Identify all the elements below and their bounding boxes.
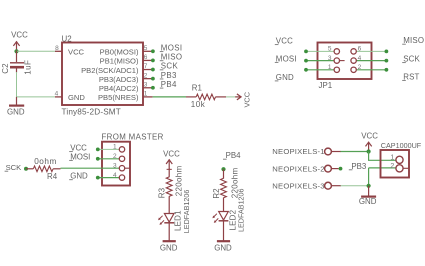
net label MOSI (JP1 left) (275, 54, 297, 63)
svg-text:R1: R1 (192, 83, 202, 92)
JP1 pad 6 (351, 49, 356, 54)
wire LED2 to GND (223, 221, 225, 241)
LED LED1 (158, 214, 174, 225)
power symbol VCC (LED1 branch) (163, 150, 180, 170)
svg-text:1: 1 (144, 91, 148, 98)
wire R1 to VCC arrow (226, 96, 237, 98)
wire C2 bottom to GND rail (16, 72, 18, 97)
svg-text:MOSI: MOSI (161, 43, 183, 52)
junction dot net PB3 (151, 77, 155, 81)
svg-text:SCK: SCK (6, 163, 22, 172)
net label SCK (JP1 right) (402, 55, 420, 64)
svg-text:R4: R4 (47, 172, 58, 181)
wire R3 to LED1 (168, 196, 170, 223)
junction dot GND/neopixels-3 (367, 184, 371, 188)
wire VCC to R3 (168, 169, 170, 178)
svg-text:FROM MASTER: FROM MASTER (102, 132, 164, 141)
FROM MASTER pad 3 (119, 166, 124, 171)
net label SCK (160, 62, 179, 71)
junction dot right row 2 (385, 59, 389, 63)
svg-text:GND: GND (7, 107, 25, 116)
ground symbol GND (LED2) (214, 241, 232, 252)
svg-text:6: 6 (358, 46, 362, 53)
JP1 pad 1 (334, 67, 339, 72)
svg-text:MISO: MISO (161, 53, 183, 62)
svg-text:NEOPIXELS-1: NEOPIXELS-1 (272, 147, 324, 156)
svg-text:VCC: VCC (70, 144, 87, 153)
U2 pin 4 stub (55, 96, 62, 98)
junction dot net PB4 (151, 86, 155, 90)
net label VCC (from master) (69, 144, 87, 153)
power symbol VCC (top-left) (11, 30, 28, 51)
svg-text:1uF: 1uF (24, 60, 33, 75)
svg-text:3: 3 (113, 162, 117, 169)
net label MISO (JP1 right) (402, 36, 424, 45)
svg-text:R2: R2 (212, 188, 221, 199)
junction dot left row 2 (304, 59, 308, 63)
svg-text:PB3: PB3 (161, 71, 177, 80)
ground symbol GND (top-left) (7, 97, 25, 116)
wire NEOPIXELS-3 to GND node (341, 185, 369, 187)
svg-text:NEOPIXELS-3: NEOPIXELS-3 (272, 181, 324, 190)
connector JP1 box (318, 43, 372, 80)
junction dot right row 1 (385, 50, 389, 54)
svg-text:5: 5 (328, 46, 332, 53)
net label MISO (160, 53, 183, 62)
JP1 pad 3 (334, 58, 339, 63)
JP1 pad 4 (351, 58, 356, 63)
resistor R3 (166, 177, 172, 197)
svg-text:8: 8 (55, 45, 59, 52)
cap pad 2 (396, 165, 403, 172)
junction dot net MISO (151, 59, 155, 63)
svg-text:Tiny85-2D-SMT: Tiny85-2D-SMT (62, 107, 121, 116)
wire into FROM MASTER pin 4 (98, 177, 120, 179)
svg-text:CAP1000UF: CAP1000UF (381, 141, 422, 150)
capacitor C2 (10, 51, 24, 73)
svg-text:PB5(NRES): PB5(NRES) (98, 93, 139, 102)
ground symbol GND (neopixels) (359, 186, 377, 206)
JP1 pad 5 (334, 49, 339, 54)
net label RST (JP1 right) (402, 72, 419, 81)
net label PB3 (160, 71, 177, 80)
svg-text:1: 1 (113, 144, 117, 151)
U2 right pin stub 2 (143, 78, 153, 80)
svg-text:4: 4 (358, 55, 362, 62)
svg-text:PB1(MISO): PB1(MISO) (100, 57, 139, 66)
svg-text:MISO: MISO (403, 36, 424, 45)
pad stub NEOPIXELS-1 (331, 151, 341, 153)
svg-text:PB4: PB4 (161, 80, 177, 89)
net label MOSI (160, 43, 183, 52)
wire GND rail to U2 pin 4 (17, 96, 56, 98)
net label PB3 (349, 162, 367, 171)
FROM MASTER pad 2 (119, 156, 124, 161)
svg-text:JP1: JP1 (319, 81, 333, 90)
svg-text:PB3(ADC3): PB3(ADC3) (99, 75, 139, 84)
svg-text:PB4(ADC2): PB4(ADC2) (99, 84, 139, 93)
junction dot SCK end (24, 167, 28, 171)
svg-text:1: 1 (390, 154, 394, 161)
junction dot node VCC/C2/U2-pin8 (14, 49, 18, 53)
wire into JP1 pin 1 (306, 69, 334, 71)
net label MOSI (from master) (69, 152, 90, 161)
wire R2 to LED2 (223, 198, 225, 221)
svg-text:3: 3 (328, 55, 332, 62)
svg-text:5: 5 (144, 45, 148, 52)
net label GND (JP1 left) (275, 73, 294, 82)
wire NEOPIXELS-2 stub (331, 168, 338, 170)
U2 right pin stub 3 (143, 87, 153, 89)
svg-text:VCC: VCC (361, 131, 378, 140)
junction dot net SCK (151, 68, 155, 72)
U2 right pin stub 5 (143, 50, 153, 52)
svg-text:MOSI: MOSI (276, 54, 297, 63)
svg-text:GND: GND (160, 243, 178, 252)
VCC symbol base tick (167, 168, 172, 170)
wire into FROM MASTER pin 2 (98, 158, 120, 160)
svg-text:SCK: SCK (161, 62, 179, 71)
wire VCC junction to U2 pin 8 (17, 50, 56, 52)
wire out of JP1 pin 2 (356, 69, 386, 71)
svg-text:GND: GND (359, 197, 377, 206)
U2 right pin stub 1 (143, 96, 153, 98)
net label PB4 (160, 80, 177, 89)
wire out of JP1 pin 4 (356, 60, 386, 62)
junction dot VCC/neopixels-1 (367, 149, 371, 153)
svg-text:VCC: VCC (68, 48, 85, 57)
wire into JP1 pin 5 (306, 50, 334, 52)
svg-text:2: 2 (358, 64, 362, 71)
FROM MASTER pad 1 (119, 147, 124, 152)
svg-text:PB4: PB4 (226, 151, 242, 160)
svg-text:2: 2 (390, 163, 394, 170)
svg-text:VCC: VCC (163, 150, 180, 159)
net label SCK (5, 163, 22, 172)
op IC U2 box (62, 43, 143, 106)
svg-text:4: 4 (113, 172, 117, 179)
svg-text:PB2(SCK/ADC1): PB2(SCK/ADC1) (81, 66, 139, 75)
pad stub NEOPIXELS-3 (331, 185, 341, 187)
svg-text:2: 2 (113, 153, 117, 160)
svg-text:7: 7 (144, 63, 148, 70)
svg-text:4: 4 (55, 91, 59, 98)
FROM MASTER pad3 stub (125, 167, 131, 169)
net label GND (from master) (69, 172, 88, 181)
resistor R4 0ohm (26, 166, 61, 172)
pad NEOPIXELS-1 (272, 147, 331, 156)
svg-text:6: 6 (144, 54, 148, 61)
svg-text:R3: R3 (157, 187, 166, 198)
wire into FROM MASTER pin 1 (98, 148, 120, 150)
pad NEOPIXELS-3 (272, 181, 331, 190)
wire into JP1 pin 3 (306, 60, 334, 62)
wire LED1 to GND (168, 223, 170, 241)
svg-text:GND: GND (68, 93, 85, 102)
wire out of JP1 pin 6 (356, 50, 386, 52)
ground symbol GND (LED1) (160, 241, 178, 252)
junction dot left row 1 (304, 50, 308, 54)
U2 right pin stub 6 (143, 59, 153, 61)
svg-text:1: 1 (328, 64, 332, 71)
FROM MASTER pad 4 (119, 175, 124, 180)
wire VCC node down to cap pin1 (368, 152, 370, 161)
junction dot row 4 (96, 176, 100, 180)
svg-text:MOSI: MOSI (70, 152, 90, 161)
net label PB4 (223, 151, 241, 160)
pad NEOPIXELS-2 (272, 164, 331, 173)
svg-text:2: 2 (144, 72, 148, 79)
svg-text:PB3: PB3 (351, 162, 367, 171)
svg-text:GND: GND (70, 172, 88, 181)
wire U2 pin1 to R1 (153, 96, 186, 98)
svg-text:LEDFAB1206: LEDFAB1206 (236, 188, 245, 232)
U2 right pin stub 7 (143, 69, 153, 71)
resistor R2 (221, 178, 227, 198)
U2 pin 8 stub (55, 50, 62, 52)
cap pad 1 (396, 156, 403, 163)
svg-text:10k: 10k (191, 100, 206, 109)
connector FROM MASTER box (102, 142, 130, 186)
LED LED2 (212, 212, 228, 223)
svg-text:GND: GND (276, 73, 294, 82)
wire cap pin2 to GND rail (369, 167, 396, 169)
JP1 pad 2 (351, 67, 356, 72)
junction dot net MOSI (151, 49, 155, 53)
junction dot right row 3 (385, 68, 389, 72)
svg-text:RST: RST (403, 72, 419, 81)
wire NEOPIXELS-1 to VCC node (341, 151, 369, 153)
cap pad 2 stub (403, 167, 409, 169)
power symbol VCC (neopixels) (361, 131, 378, 152)
capacitor CAP1000UF box (381, 150, 410, 178)
JP1 pad3 stub (340, 60, 345, 62)
power symbol VCC (right arrow) (235, 91, 251, 107)
resistor R1 (186, 94, 226, 100)
svg-text:0ohm: 0ohm (34, 157, 57, 166)
wire into FROM MASTER pin 3 (61, 167, 120, 169)
svg-text:NEOPIXELS-2: NEOPIXELS-2 (272, 164, 324, 173)
junction dot row 1 (96, 148, 100, 152)
svg-text:VCC: VCC (276, 37, 293, 46)
svg-text:U2: U2 (62, 34, 72, 43)
svg-text:SCK: SCK (403, 55, 420, 64)
net label VCC (JP1 left) (275, 37, 293, 46)
wire PB4 to R2 (223, 169, 225, 178)
svg-text:PB0(MOSI): PB0(MOSI) (100, 48, 139, 57)
junction dot left row 3 (304, 68, 308, 72)
svg-text:VCC: VCC (11, 30, 28, 39)
junction dot PB4 (221, 167, 225, 171)
svg-text:GND: GND (214, 243, 232, 252)
junction dot PB3 (339, 167, 343, 171)
svg-text:LEDFAB1206: LEDFAB1206 (182, 190, 191, 234)
junction dot row 2 (96, 157, 100, 161)
svg-text:3: 3 (144, 81, 148, 88)
svg-text:C2: C2 (1, 63, 10, 74)
svg-text:VCC: VCC (242, 91, 251, 107)
